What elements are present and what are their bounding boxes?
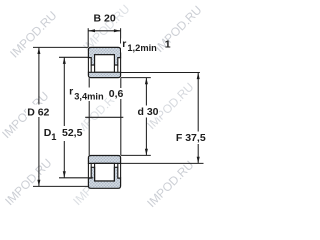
d dimension line xyxy=(145,78,147,155)
svg-text:D 62: D 62 xyxy=(27,106,49,118)
svg-text:52,5: 52,5 xyxy=(62,127,83,139)
D extension line top xyxy=(33,46,88,48)
svg-text:0,6: 0,6 xyxy=(109,88,124,100)
F extension line bottom xyxy=(121,162,204,164)
D1 arrow bottom xyxy=(63,171,66,178)
svg-text:1: 1 xyxy=(51,132,56,142)
label r3,4min xyxy=(68,85,104,101)
F arrow bottom xyxy=(197,157,200,164)
D1 dimension line xyxy=(63,58,65,178)
outer ring lower: recess wall lines xyxy=(88,163,120,178)
d extension line bottom xyxy=(121,154,151,156)
bore silhouette line right xyxy=(120,78,122,155)
F dimension line xyxy=(197,73,199,164)
svg-text:F 37,5: F 37,5 xyxy=(176,132,206,144)
svg-text:1,2min: 1,2min xyxy=(127,43,157,53)
D arrow top xyxy=(37,48,40,55)
inner ring lower half-section xyxy=(88,156,120,164)
svg-text:1: 1 xyxy=(165,39,171,51)
B dimension line xyxy=(88,30,120,32)
D dimension line xyxy=(38,48,40,187)
inner ring upper half-section xyxy=(88,72,120,77)
B extension line left xyxy=(87,28,89,47)
d arrow top xyxy=(145,78,148,85)
svg-text:B 20: B 20 xyxy=(94,12,116,24)
outer ring upper: recess wall lines xyxy=(88,58,120,73)
D arrow bottom xyxy=(37,180,40,187)
svg-text:3,4min: 3,4min xyxy=(74,92,104,102)
label r1,2min 1 xyxy=(121,38,171,53)
outer ring upper half-section (flanged, with side recesses) xyxy=(88,47,120,65)
D1 extension line top xyxy=(59,56,88,58)
roller lower xyxy=(95,163,115,181)
label d 30 xyxy=(136,106,159,119)
B arrow right xyxy=(114,29,121,32)
label F 37,5 xyxy=(176,132,206,145)
F arrow top xyxy=(197,73,200,80)
roller upper xyxy=(95,55,115,73)
outer ring lower half-section (flanged, with side recesses) xyxy=(88,167,120,188)
d arrow bottom xyxy=(145,149,148,156)
label D1 52,5 xyxy=(42,126,83,142)
svg-text:r: r xyxy=(69,85,73,97)
label D 62 xyxy=(26,105,52,119)
bore silhouette line left xyxy=(88,78,90,155)
B arrow left xyxy=(88,29,95,32)
D1 extension line bottom xyxy=(59,177,93,179)
label 0,6 xyxy=(107,88,124,100)
svg-text:d 30: d 30 xyxy=(138,106,159,118)
F extension line top xyxy=(121,72,200,74)
svg-text:r: r xyxy=(122,38,126,50)
D1 arrow top xyxy=(63,57,66,64)
centerline axis segment xyxy=(85,116,123,118)
D extension line bottom xyxy=(33,185,88,187)
B extension line right xyxy=(120,28,122,43)
d extension line top xyxy=(121,77,151,79)
